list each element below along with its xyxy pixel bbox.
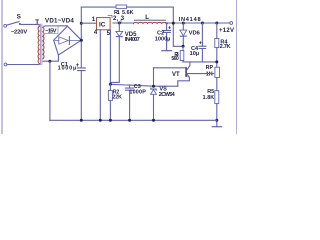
svg-text:1000P: 1000P [129,89,146,95]
transformer T primary winding [38,26,39,63]
resistor R3 [182,46,184,50]
zener diode VS [151,88,156,90]
svg-text:R5: R5 [207,89,214,95]
svg-text:VD6: VD6 [189,30,201,36]
capacitor C4 [201,23,203,46]
bridge rectifier VD1-VD4 diamond [54,26,82,55]
transistor VT [185,68,187,76]
svg-text:IN4007: IN4007 [125,37,140,43]
svg-text:IN4148: IN4148 [179,17,201,23]
svg-text:5.6K: 5.6K [122,10,134,16]
wire bottom terminal to transformer primary bottom [7,64,39,65]
svg-text:S: S [17,13,22,20]
node +12V output terminal [230,22,233,25]
resistor R2 [109,84,111,90]
node junction C3 bottom bus [128,119,131,122]
wire IC pin5 down [109,30,111,85]
wire RP wiper with arrow [187,73,213,75]
node input terminal top [4,24,7,27]
wire bottom bus [50,119,217,121]
capacitor C3 [129,85,131,88]
node VD6 anode junction [182,45,185,48]
svg-text:560: 560 [171,56,179,62]
svg-text:,: , [117,16,119,23]
svg-text:1K: 1K [206,71,213,77]
resistor R5 [215,91,219,104]
node junction secondary-bottom / ground descender [48,60,51,63]
switch S [7,22,19,26]
svg-text:1000µ: 1000µ [155,37,171,43]
wire VT emitter step down to sense line [178,77,190,86]
svg-text:T: T [35,19,39,26]
wire VT base line from VS [154,67,186,69]
transformer T secondary winding [43,27,44,59]
diode VD5 [118,23,120,31]
svg-text:~15V: ~15V [45,29,57,35]
diode VD6 [182,23,184,30]
svg-text:R1: R1 [114,10,120,16]
svg-text:+: + [168,25,171,31]
node VD5 junction [118,22,121,25]
svg-text:VT: VT [172,72,180,78]
node junction VS on sense line [152,85,155,88]
svg-text:VD1~VD4: VD1~VD4 [45,17,74,24]
wire VS riser [153,68,155,86]
node junction pin5/R2/VD5 [109,83,112,86]
wire IC pin4 to bottom bus [99,30,101,121]
node junction C4 on output line [201,22,204,25]
wire bridge + output vertical rail x81 [80,7,82,120]
wire top bus R1 to corner [127,6,174,8]
wire mid sense line [110,84,177,86]
op-amp IC U1 box [97,18,111,30]
node junction R2 bottom bus [109,119,112,122]
node junction bus descender on output line [172,22,175,25]
node junction C2 on output line [166,22,168,24]
svg-text:+12V: +12V [219,28,234,34]
inductor L winding [134,22,167,24]
wire R3 bottom to R4 rail [183,61,217,62]
wire secondary top to bridge [43,26,67,28]
wire output line left part [113,22,134,24]
label ~15V boxed [44,26,58,34]
wire RP to R5 [216,78,218,91]
svg-text:IC: IC [99,22,106,29]
svg-text:L: L [145,15,149,21]
resistor R1 [116,5,127,8]
wire top bus from rail to R1 [81,6,116,8]
capacitor C1 [77,68,85,71]
wire IC pin3 stub [120,20,122,23]
wire switch to transformer primary top [20,24,39,26]
ground R5 bar [212,126,221,128]
wire R4 to RP [216,48,218,68]
node junction VS bottom bus [152,119,155,122]
wire IC pin1 [81,22,96,24]
svg-text:10µ: 10µ [190,51,199,57]
wire left scan border [1,0,3,134]
wire output line right part [167,22,230,24]
svg-text:2CW54: 2CW54 [159,92,176,98]
svg-text:1.8K: 1.8K [203,95,215,101]
node junction rail/IC pin1 wire [80,22,83,25]
potentiometer RP [215,67,220,77]
svg-text:+: + [199,40,202,46]
wire right scan border [236,0,238,134]
node junction C1 rail bottom bus [80,119,83,122]
wire corner descender to VD6 anode wire [173,7,183,46]
resistor R4 [216,23,218,39]
wire bridge bottom vertex down and left to secondary bottom [43,55,58,61]
node junction VD6 on output line [182,22,185,25]
node junction pin4 bottom bus [99,119,102,122]
node input terminal bottom [4,63,7,66]
svg-text:RP: RP [206,65,214,71]
svg-text:1000µ: 1000µ [58,65,77,71]
svg-text:2.7K: 2.7K [220,44,231,50]
transformer T core [41,24,42,65]
node bridge right vertex junction [80,39,83,42]
ground C2 bar [162,50,172,52]
inductor L core line [134,19,165,21]
svg-text:~220V: ~220V [11,29,28,35]
wire R2 to bottom bus [109,100,111,120]
node junction R5 bottom bus [215,119,218,122]
node switch contact [19,23,21,25]
wire R5 to bottom bus and ground stub [216,104,218,127]
node junction R4/RP/collector wire [215,60,218,63]
capacitor C2 [166,23,168,30]
svg-text:22K: 22K [112,94,122,100]
wire ground descender to bottom bus [49,61,51,120]
wire IC pin2 stub [108,15,112,17]
bridge inner diode [59,37,68,44]
node junction R4 on output line [215,22,218,25]
